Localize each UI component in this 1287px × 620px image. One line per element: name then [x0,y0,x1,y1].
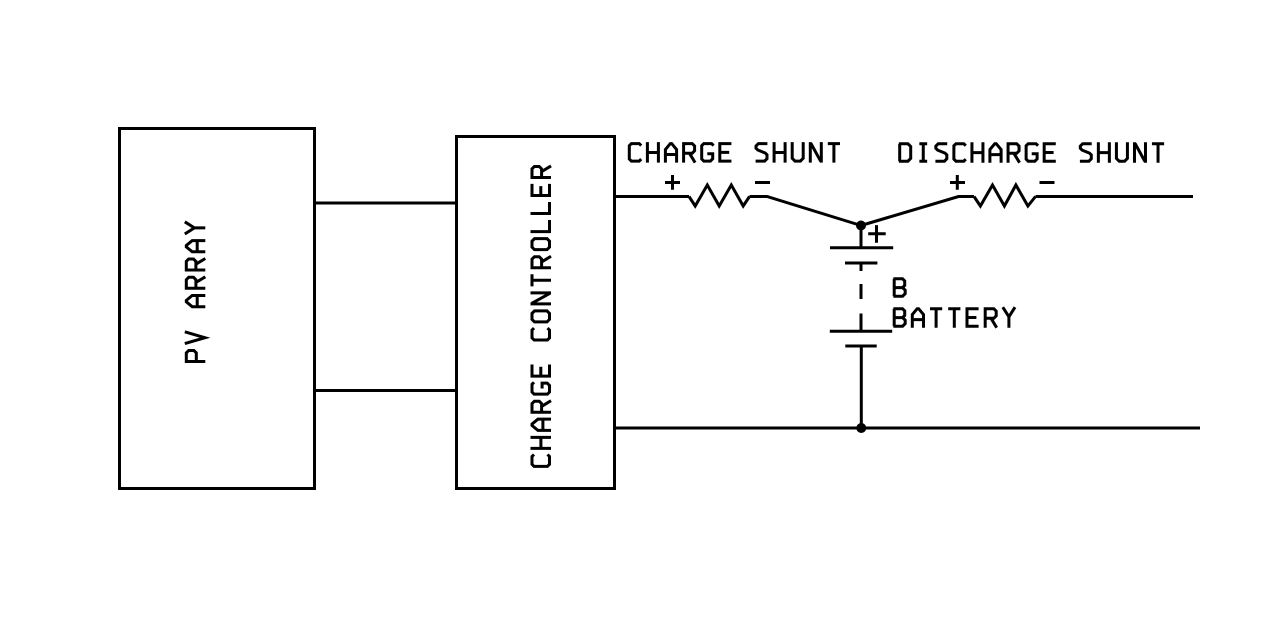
wire battery bottom plate to negative rail [860,346,863,428]
wire controller output to charge shunt [615,195,690,198]
block PV1 PV ARRAY [120,129,315,489]
polarity + (discharge shunt left) [950,175,965,190]
label B [893,279,905,297]
block U1 CHARGE CONTROLLER [457,137,615,489]
battery cell1 short plate [845,262,877,265]
polarity + (battery top) [868,225,886,243]
battery intermediate cells dashed line [860,263,863,330]
wire PV+ to controller (top) [315,202,457,205]
wire charge shunt to battery node [750,197,862,226]
battery cell1 long plate [830,246,893,249]
polarity - (charge shunt right) [755,181,770,184]
polarity - (discharge shunt right) [1040,181,1055,184]
wire negative rail (bottom) [615,427,1201,430]
resistor R2 DISCHARGE SHUNT [974,185,1036,206]
label CHARGE SHUNT [629,142,840,163]
node battery positive junction [856,221,866,231]
resistor R1 CHARGE SHUNT [689,185,750,206]
polarity + (charge shunt left) [665,175,680,190]
wire battery node to discharge shunt [861,197,974,226]
node battery negative junction [856,423,866,433]
label CHARGE CONTROLLER [531,166,552,466]
wire PV- to controller (bottom) [315,389,457,392]
battery B [830,226,893,429]
label BATTERY [893,307,1015,328]
battery cell2 long plate [830,330,892,333]
wire discharge shunt to load (right end) [1036,195,1194,198]
label PV ARRAY [185,222,206,362]
battery cell2 short plate [845,345,876,348]
wire node to battery top plate [860,226,863,248]
label DISCHARGE SHUNT [899,142,1164,163]
